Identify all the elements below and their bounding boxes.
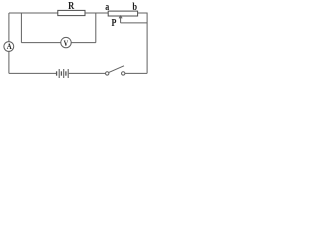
wire wiper return to right side <box>121 22 148 24</box>
wire between R and rheostat <box>85 12 108 14</box>
voltmeter V circle <box>61 37 71 47</box>
switch lever <box>109 66 124 73</box>
wire voltmeter branch left horizontal <box>21 42 60 44</box>
wire switch to bottom-right corner <box>125 72 147 74</box>
wire voltmeter branch right horizontal <box>71 42 96 44</box>
wire battery to switch <box>69 72 106 74</box>
ammeter A circle <box>4 42 14 52</box>
wiper arrow P <box>120 16 122 23</box>
wire rheostat b to top-right corner and down right side <box>138 13 148 73</box>
svg-text:b: b <box>132 2 137 13</box>
svg-text:A: A <box>7 42 12 52</box>
wire left side lower <box>8 51 10 73</box>
wire top-left horizontal <box>9 12 58 14</box>
wire bottom-left to battery <box>9 72 56 74</box>
battery cell 3 short plate <box>65 71 67 75</box>
wire left side upper <box>8 13 10 42</box>
wire voltmeter branch left vertical <box>20 13 22 43</box>
svg-text:a: a <box>105 1 109 12</box>
rheostat box <box>108 11 137 16</box>
battery cell 1 long plate <box>58 69 60 78</box>
resistor R box <box>58 10 85 15</box>
battery cell 1 short plate <box>56 71 58 75</box>
svg-text:V: V <box>64 38 69 48</box>
battery cell 3 long plate <box>67 69 69 78</box>
switch left contact circle <box>106 72 109 75</box>
svg-text:R: R <box>68 2 74 13</box>
battery cell 2 short plate <box>60 71 62 75</box>
battery cell 2 long plate <box>63 69 65 78</box>
wire voltmeter branch right vertical <box>95 13 97 43</box>
switch right contact circle <box>122 72 125 75</box>
svg-text:P: P <box>112 17 117 29</box>
